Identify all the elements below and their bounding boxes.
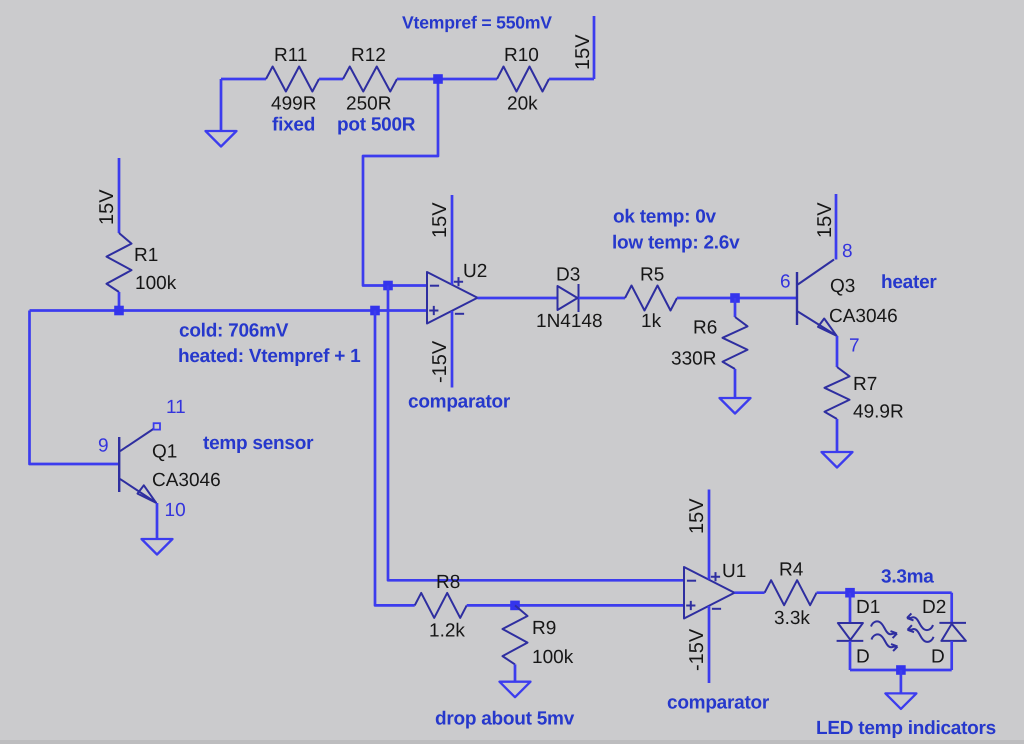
svg-text:D1: D1	[856, 597, 880, 618]
LED D1	[837, 623, 864, 641]
annotation temp sensor	[203, 433, 314, 454]
wire node to D1 anode	[849, 593, 852, 623]
net label -15V (U2)	[429, 340, 451, 383]
junction node U2 inverting input	[383, 281, 393, 291]
svg-text:R6: R6	[693, 318, 717, 339]
annotation heater	[881, 272, 937, 293]
ground G3 (under R6)	[720, 398, 751, 414]
value 100k	[135, 273, 177, 294]
pin number 11	[166, 397, 186, 418]
ground G1 (left of R11)	[206, 79, 237, 147]
svg-text:R7: R7	[853, 374, 877, 395]
label R1	[134, 245, 158, 266]
svg-text:comparator: comparator	[667, 693, 770, 714]
label D2	[922, 597, 946, 618]
annotation comparator (U2)	[408, 392, 511, 413]
svg-text:CA3046: CA3046	[152, 470, 221, 491]
svg-text:100k: 100k	[135, 273, 177, 294]
svg-text:R9: R9	[532, 618, 556, 639]
annotation LED temp indicators	[816, 718, 996, 739]
wire Q3 emitter to R7	[836, 336, 839, 367]
svg-text:15V: 15V	[96, 189, 118, 225]
svg-text:250R: 250R	[346, 94, 391, 115]
svg-text:15V: 15V	[429, 202, 451, 238]
svg-text:LED temp indicators: LED temp indicators	[816, 718, 996, 739]
svg-text:D3: D3	[556, 265, 580, 286]
wire down-left to Q1 base	[30, 311, 120, 465]
annotation cold: 706mV	[179, 321, 289, 342]
label R12	[351, 45, 386, 66]
net label 15V (Q3)	[814, 202, 836, 238]
svg-text:R1: R1	[134, 245, 158, 266]
resistor R12	[343, 67, 397, 92]
wire R12 to R10 through node	[397, 78, 497, 81]
wire U2 output to D3	[478, 297, 558, 300]
svg-text:heater: heater	[881, 272, 937, 293]
value 20k	[507, 94, 538, 115]
svg-text:R8: R8	[436, 572, 460, 593]
svg-text:pot 500R: pot 500R	[337, 115, 416, 136]
junction node LED top	[845, 588, 855, 598]
svg-text:fixed: fixed	[272, 115, 315, 136]
svg-text:D: D	[856, 647, 870, 668]
resistor R6	[723, 317, 748, 369]
wire right branch to D2 cathode	[950, 593, 953, 623]
junction node R6 top	[730, 293, 740, 303]
svg-text:drop about 5mv: drop about 5mv	[435, 709, 575, 730]
svg-text:100k: 100k	[532, 647, 574, 668]
svg-text:49.9R: 49.9R	[853, 402, 904, 423]
wire U1 output to R4	[735, 591, 765, 594]
svg-text:11: 11	[166, 397, 186, 418]
svg-text:3.3k: 3.3k	[774, 608, 810, 629]
svg-text:8: 8	[842, 241, 853, 262]
svg-text:9: 9	[98, 436, 109, 457]
wire R10 to 15V rail	[549, 16, 594, 79]
wire node to R6	[734, 298, 737, 317]
diode D3	[558, 284, 579, 312]
value 499R	[271, 94, 316, 115]
ground G6 (LED return)	[885, 693, 916, 709]
value CA3046 (Q1)	[152, 470, 221, 491]
resistor R4	[765, 580, 817, 605]
annotation Vtempref = 550mV	[402, 13, 552, 33]
wire U1 -15V supply	[708, 606, 711, 683]
wire U2 -15V supply	[451, 311, 454, 388]
annotation low temp: 2.6v	[612, 233, 740, 254]
svg-text:10: 10	[165, 500, 186, 521]
label R6	[693, 318, 717, 339]
value 1N4148	[536, 311, 603, 332]
svg-text:cold: 706mV: cold: 706mV	[179, 321, 289, 342]
wire sense rail to U2 non-inverting input	[30, 309, 428, 312]
wire R7 to ground	[836, 419, 839, 452]
net label -15V (U1)	[686, 628, 708, 671]
svg-text:U2: U2	[463, 261, 487, 282]
value 250R	[346, 94, 391, 115]
resistor R11	[266, 67, 319, 92]
pin number 10	[165, 500, 186, 521]
svg-text:comparator: comparator	[408, 392, 511, 413]
value CA3046 (Q3)	[829, 306, 898, 327]
value D (D2)	[931, 647, 945, 668]
svg-text:-15V: -15V	[429, 340, 451, 383]
wire R6 to ground	[734, 369, 737, 398]
resistor R5	[625, 286, 677, 311]
junction node LED bottom	[896, 665, 906, 675]
wire R9 to ground	[514, 664, 517, 681]
label D1	[856, 597, 880, 618]
svg-text:7: 7	[849, 336, 860, 357]
label R4	[779, 560, 804, 581]
svg-text:D: D	[931, 647, 945, 668]
wire LED loop bottom	[850, 669, 952, 672]
svg-text:R5: R5	[640, 265, 664, 286]
label U2	[463, 261, 487, 282]
pin number 7	[849, 336, 860, 357]
ground G2 (Q1 emitter)	[142, 539, 173, 555]
annotation 3.3ma	[881, 567, 934, 588]
pin number 6	[780, 272, 791, 293]
transistor Q1 body	[119, 429, 156, 504]
svg-text:R12: R12	[351, 45, 386, 66]
wire LED bottom to ground	[900, 670, 903, 693]
wire ground to R11	[221, 78, 266, 81]
svg-text:R10: R10	[504, 45, 539, 66]
svg-text:1.2k: 1.2k	[429, 621, 465, 642]
wire reference down to U1 inverting input	[388, 286, 685, 581]
op-amp U2	[427, 272, 478, 324]
ground G4 (under R7)	[822, 452, 853, 468]
value 1k	[641, 311, 662, 332]
svg-text:temp sensor: temp sensor	[203, 433, 314, 454]
pin 11 open square	[154, 423, 160, 429]
label R7	[853, 374, 877, 395]
svg-text:R11: R11	[274, 45, 307, 66]
svg-text:15V: 15V	[572, 34, 594, 70]
resistor R9	[503, 605, 528, 664]
wire R11 to R12	[319, 78, 343, 81]
annotation drop about 5mv	[435, 709, 575, 730]
svg-text:1N4148: 1N4148	[536, 311, 603, 332]
transistor Q3 body	[797, 260, 837, 337]
resistor R8	[415, 593, 467, 618]
label Q1	[152, 442, 177, 463]
annotation pot 500R	[337, 115, 416, 136]
label D3	[556, 265, 580, 286]
label Q3	[830, 276, 855, 297]
svg-text:3.3ma: 3.3ma	[881, 567, 934, 588]
svg-text:U1: U1	[722, 561, 746, 582]
svg-text:ok temp: 0v: ok temp: 0v	[613, 206, 717, 227]
junction node under R1	[114, 306, 124, 316]
label R10	[504, 45, 539, 66]
net label 15V (U1)	[686, 498, 708, 534]
label U1	[722, 561, 746, 582]
wire R1 to sense node	[118, 292, 121, 311]
pin number 9	[98, 436, 109, 457]
wire U1 +15V supply	[708, 490, 711, 580]
resistor R10	[497, 67, 549, 92]
LED D2	[939, 623, 966, 641]
wire LED loop top	[850, 591, 952, 594]
annotation ok temp: 0v	[613, 206, 717, 227]
value 3.3k	[774, 608, 810, 629]
value 100k (R9)	[532, 647, 574, 668]
net label 15V (U2)	[429, 202, 451, 238]
svg-text:15V: 15V	[814, 202, 836, 238]
value D (D1)	[856, 647, 870, 668]
svg-text:15V: 15V	[686, 498, 708, 534]
wire D1 cathode to bottom rail	[849, 641, 852, 670]
svg-text:499R: 499R	[271, 94, 316, 115]
svg-text:D2: D2	[922, 597, 946, 618]
wire Q3 collector to 15V	[835, 194, 838, 260]
D2 light arrows	[907, 613, 934, 641]
svg-text:1k: 1k	[641, 311, 662, 332]
wire R4 to LED pair	[817, 591, 850, 594]
value 330R	[671, 349, 716, 370]
svg-text:Vtempref = 550mV: Vtempref = 550mV	[402, 13, 552, 33]
junction node Vtempref	[433, 74, 443, 84]
annotation fixed	[272, 115, 315, 136]
value 49.9R	[853, 402, 904, 423]
wire D3 to R5	[579, 297, 626, 300]
wire Vtempref node down to U2 inverting input	[363, 79, 438, 286]
pin number 8	[842, 241, 853, 262]
value 1.2k	[429, 621, 465, 642]
svg-text:330R: 330R	[671, 349, 716, 370]
svg-text:Q3: Q3	[830, 276, 855, 297]
wire D2 anode to bottom rail	[950, 641, 953, 670]
svg-text:Q1: Q1	[152, 442, 177, 463]
label R9	[532, 618, 556, 639]
D1 light arrows	[871, 621, 898, 651]
wire R5 to Q3 base through node	[677, 297, 797, 300]
wire sense down to R8	[375, 311, 415, 606]
wire 15V rail to R1	[118, 158, 121, 233]
net label 15V (top right)	[572, 34, 594, 70]
svg-text:20k: 20k	[507, 94, 538, 115]
svg-text:low temp: 2.6v: low temp: 2.6v	[612, 233, 740, 254]
junction node U2 non-inverting input	[370, 306, 380, 316]
label R11	[274, 45, 307, 66]
resistor R1	[107, 233, 132, 292]
svg-text:6: 6	[780, 272, 791, 293]
ground G5 (under R9)	[500, 682, 531, 698]
op-amp U1	[684, 567, 735, 619]
annotation comparator (U1)	[667, 693, 770, 714]
svg-text:CA3046: CA3046	[829, 306, 898, 327]
label R5	[640, 265, 664, 286]
wire R8 to U1 non-inverting input through node	[467, 604, 685, 607]
wire U2 +15V supply	[451, 195, 454, 285]
resistor R7	[825, 367, 850, 419]
label R8	[436, 572, 460, 593]
svg-text:heated: Vtempref + 1: heated: Vtempref + 1	[178, 346, 361, 367]
net label 15V (R1)	[96, 189, 118, 225]
annotation heated: Vtempref + 1	[178, 346, 361, 367]
wire Q1 emitter to ground	[156, 503, 159, 539]
svg-text:R4: R4	[779, 560, 804, 581]
junction node R9 top	[510, 601, 520, 611]
svg-text:-15V: -15V	[686, 628, 708, 671]
